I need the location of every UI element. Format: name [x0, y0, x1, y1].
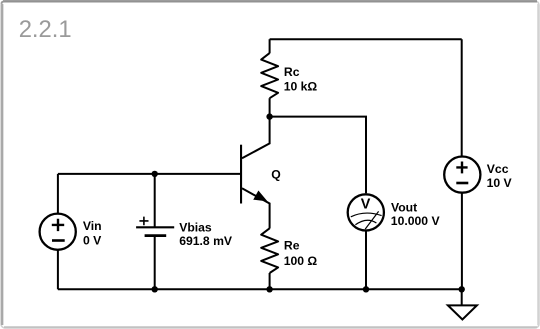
svg-text:100 Ω: 100 Ω [284, 254, 318, 268]
wire base rail [58, 173, 241, 175]
svg-text:Vbias: Vbias [179, 220, 212, 234]
node bottom voltmeter junction [363, 286, 369, 292]
resistor Rc [261, 39, 278, 116]
svg-text:10 kΩ: 10 kΩ [284, 80, 318, 94]
ground [448, 289, 477, 319]
svg-text:Re: Re [284, 239, 300, 253]
voltage source Vin [40, 174, 76, 289]
svg-text:Vcc: Vcc [487, 162, 509, 176]
node collector junction [266, 113, 272, 119]
svg-text:10.000 V: 10.000 V [391, 214, 441, 228]
svg-text:2.2.1: 2.2.1 [19, 16, 72, 43]
svg-text:V: V [361, 196, 371, 212]
voltmeter Vout [348, 194, 384, 289]
svg-text:0 V: 0 V [83, 234, 102, 248]
node bottom Vbias junction [152, 286, 158, 292]
voltage source Vcc [444, 39, 480, 289]
wire top rail [270, 38, 462, 40]
svg-text:Vin: Vin [83, 219, 102, 233]
svg-text:Vout: Vout [391, 201, 417, 215]
svg-text:10 V: 10 V [487, 176, 513, 190]
node bottom Re junction [266, 286, 272, 292]
battery Vbias [136, 174, 174, 289]
svg-text:691.8 mV: 691.8 mV [179, 234, 233, 248]
svg-text:Rc: Rc [284, 65, 300, 79]
node bottom Vcc junction [459, 286, 465, 292]
node base junction [152, 171, 158, 177]
resistor Re [261, 228, 278, 289]
svg-text:Q: Q [271, 168, 280, 182]
transistor Q [241, 117, 270, 229]
wire collector to voltmeter [270, 117, 366, 194]
wire bottom rail [58, 288, 462, 290]
